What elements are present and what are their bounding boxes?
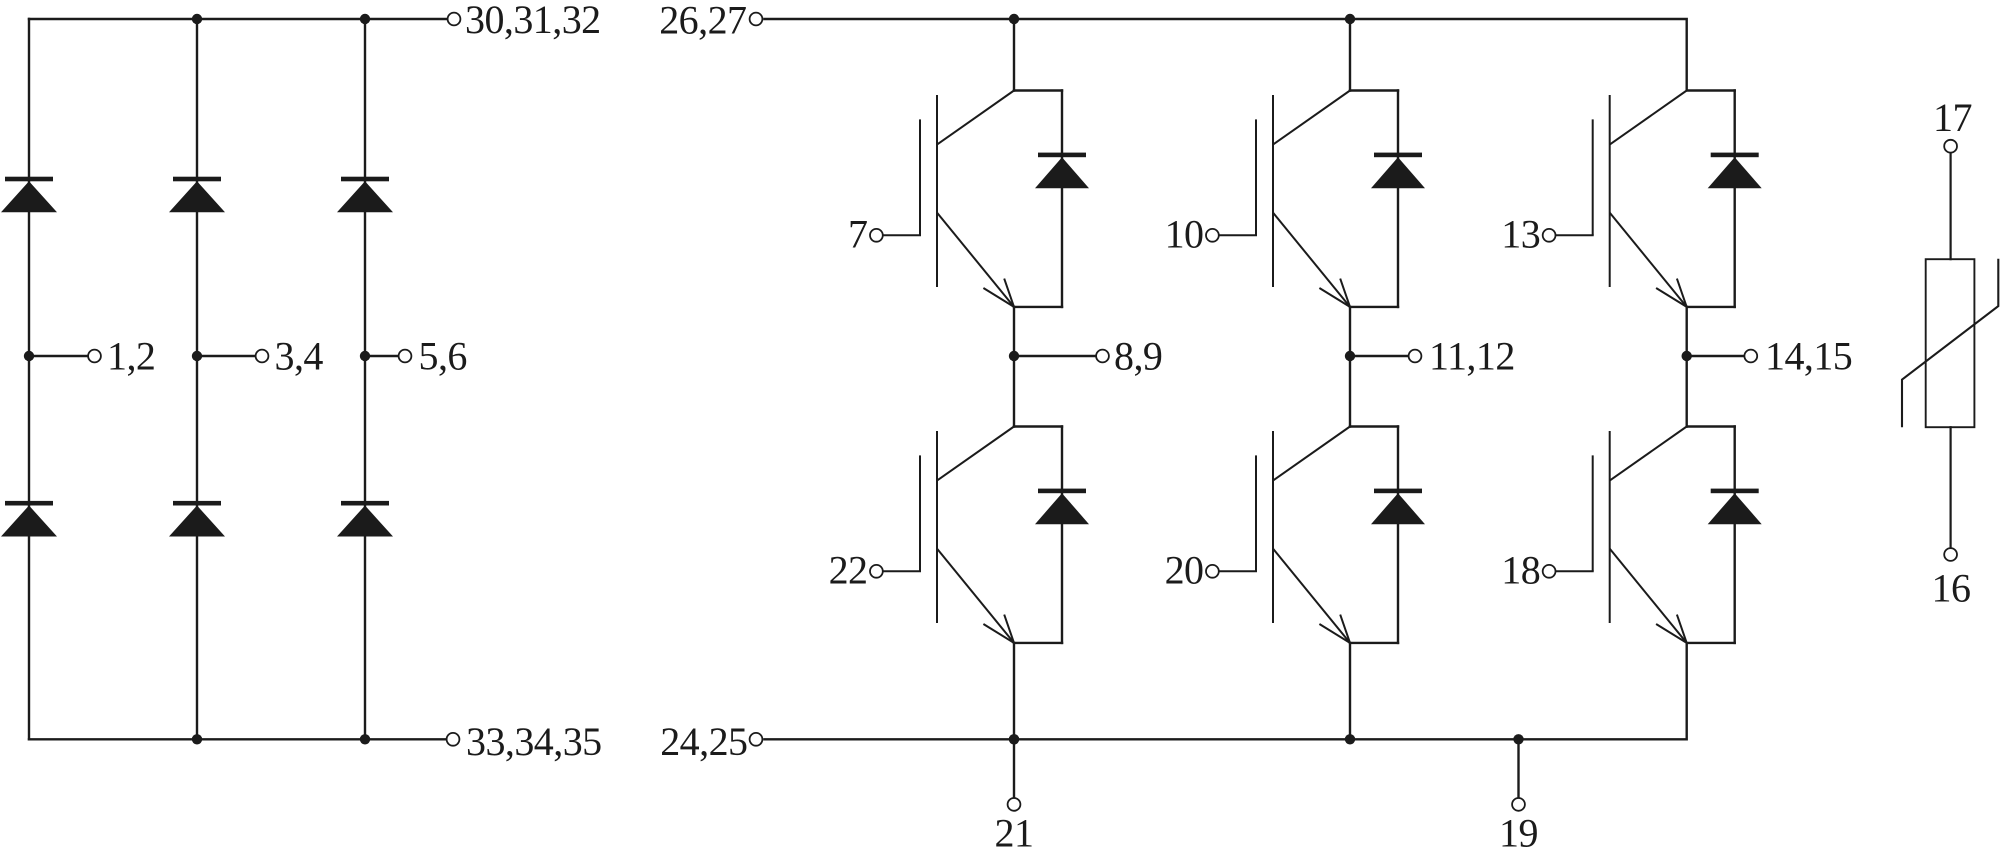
diode D5 (rectifier bottom, leg 2): [169, 501, 225, 537]
terminal 8,9: [1096, 350, 1109, 363]
transistor Q4 (bottom, pin 22) emitter arrow barb 2: [1004, 615, 1014, 643]
wire phase 1 midpoint drop: [1013, 307, 1015, 356]
svg-text:8,9: 8,9: [1114, 333, 1162, 378]
wire gate lead Q2 (top, pin 10): [1220, 234, 1257, 236]
transistor Q3 (top, pin 13) emitter arrow barb 1: [1656, 288, 1687, 307]
transistor Q4 (bottom, pin 22) collector lead: [937, 427, 1014, 481]
wire collector elbow Q2 (top, pin 10): [1350, 89, 1398, 91]
wire AC input stub 1,2: [29, 355, 87, 357]
transistor Q6 (bottom, pin 18) emitter arrow barb 1: [1656, 624, 1687, 643]
wire emitter elbow Q4 (bottom, pin 22): [1014, 642, 1062, 644]
transistor Q2 (top, pin 10) collector lead: [1273, 91, 1350, 145]
label 20: [1165, 548, 1204, 593]
diode D6 (rectifier bottom, leg 3): [337, 501, 393, 537]
svg-text:18: 18: [1501, 548, 1540, 593]
wire DC+ rail (inverter top bus): [763, 19, 1686, 91]
svg-text:1,2: 1,2: [107, 333, 155, 378]
wire gate lead Q5 (bottom, pin 20): [1220, 570, 1257, 572]
wire DC- rail (rectifier bottom bus): [29, 738, 446, 740]
junction node 5,6: [360, 351, 370, 361]
transistor Q2 (top, pin 10) emitter arrow barb 2: [1340, 279, 1350, 307]
wire emitter elbow Q1 (top, pin 7): [1014, 306, 1062, 308]
wire stub terminal 21: [1013, 739, 1015, 797]
transistor Q5 (bottom, pin 20) collector lead: [1273, 427, 1350, 481]
transistor Q4 (bottom, pin 22) gate bar: [919, 455, 921, 571]
svg-text:24,25: 24,25: [660, 719, 747, 764]
wire phase 3 midpoint drop: [1685, 307, 1687, 356]
label 17: [1933, 95, 1972, 140]
transistor Q5 (bottom, pin 20) gate bar: [1255, 455, 1257, 571]
wire emitter elbow Q5 (bottom, pin 20): [1350, 642, 1398, 644]
transistor Q1 (top, pin 7) emitter arrow barb 1: [983, 288, 1014, 307]
transistor Q3 (top, pin 13) main bar: [1609, 95, 1611, 287]
junction top rail / leg 3: [360, 14, 370, 24]
svg-text:17: 17: [1933, 95, 1972, 140]
terminal 10 (gate Q2 (top, pin 10)): [1206, 229, 1219, 242]
transistor Q5 (bottom, pin 20) emitter arrow barb 2: [1340, 615, 1350, 643]
transistor Q6 (bottom, pin 18) emitter arrow barb 2: [1677, 615, 1687, 643]
svg-text:11,12: 11,12: [1429, 333, 1515, 378]
terminal 20 (gate Q5 (bottom, pin 20)): [1206, 565, 1219, 578]
junction bottom rail phase 2: [1345, 734, 1355, 744]
diode D6 bottom FWD (freewheel, antiparallel): [1708, 489, 1762, 525]
junction bottom rail / leg 3: [360, 734, 370, 744]
label 21: [995, 811, 1034, 856]
transistor Q6 (bottom, pin 18) gate bar: [1592, 455, 1594, 571]
diode D1 top FWD (freewheel, antiparallel): [1035, 153, 1089, 189]
svg-text:14,15: 14,15: [1765, 333, 1852, 378]
junction bottom rail / leg 2: [192, 734, 202, 744]
wire AC input stub 3,4: [197, 355, 255, 357]
wire AC input stub 5,6: [365, 355, 398, 357]
svg-text:5,6: 5,6: [419, 333, 467, 378]
wire freewheel-diode branch Q5 (bottom, pin 20): [1397, 427, 1399, 643]
wire collector elbow Q3 (top, pin 13): [1687, 89, 1735, 91]
terminal 19: [1512, 798, 1525, 811]
label 8,9: [1114, 333, 1162, 378]
wire emitter elbow Q6 (bottom, pin 18): [1687, 642, 1735, 644]
junction node 3,4: [192, 351, 202, 361]
wire gate lead Q3 (top, pin 13): [1556, 234, 1593, 236]
terminal 11,12: [1409, 350, 1422, 363]
junction node 11,12: [1345, 351, 1355, 361]
label 30,31,32: [465, 0, 601, 42]
transistor Q2 (top, pin 10) emitter arrow barb 1: [1319, 288, 1350, 307]
label 11,12: [1429, 333, 1515, 378]
wire rectifier leg 1 vertical: [28, 19, 30, 739]
junction node 21: [1009, 734, 1019, 744]
svg-text:13: 13: [1501, 212, 1540, 257]
junction top rail / leg 2: [192, 14, 202, 24]
transistor Q4 (bottom, pin 22) emitter lead: [937, 549, 1014, 643]
terminal 7 (gate Q1 (top, pin 7)): [870, 229, 883, 242]
label 7: [848, 212, 867, 257]
transistor Q2 (top, pin 10) main bar: [1272, 95, 1274, 287]
terminal 30,31,32: [448, 13, 461, 26]
diode D4 (rectifier bottom, leg 1): [1, 501, 57, 537]
diode D3 top FWD (freewheel, antiparallel): [1708, 153, 1762, 189]
label 26,27: [659, 0, 746, 43]
transistor Q4 (bottom, pin 22) emitter arrow barb 1: [983, 624, 1014, 643]
label 1,2: [107, 333, 155, 378]
label 22: [829, 548, 868, 593]
wire collector drop phase 1: [1013, 19, 1015, 91]
wire AC output stub 8,9: [1014, 355, 1095, 357]
transistor Q2 (top, pin 10) emitter lead: [1273, 213, 1350, 307]
label 19: [1499, 811, 1538, 856]
transistor Q3 (top, pin 13) emitter lead: [1610, 213, 1687, 307]
transistor Q6 (bottom, pin 18) emitter lead: [1610, 549, 1687, 643]
label 24,25: [660, 719, 747, 764]
wire freewheel-diode branch Q6 (bottom, pin 18): [1733, 427, 1735, 643]
junction node 8,9: [1009, 351, 1019, 361]
transistor Q6 (bottom, pin 18) main bar: [1609, 431, 1611, 623]
wire collector drop phase 1 bottom: [1013, 356, 1015, 427]
transistor Q6 (bottom, pin 18) collector lead: [1610, 427, 1687, 481]
label 33,34,35: [466, 719, 602, 764]
label 13: [1501, 212, 1540, 257]
transistor Q1 (top, pin 7) emitter arrow barb 2: [1004, 279, 1014, 307]
wire AC output stub 11,12: [1350, 355, 1408, 357]
junction node 14,15: [1682, 351, 1692, 361]
terminal 14,15: [1744, 350, 1757, 363]
wire collector elbow Q5 (bottom, pin 20): [1350, 425, 1398, 427]
svg-text:16: 16: [1932, 566, 1971, 611]
label 18: [1501, 548, 1540, 593]
svg-text:33,34,35: 33,34,35: [466, 719, 602, 764]
transistor Q1 (top, pin 7) collector lead: [937, 91, 1014, 145]
label 14,15: [1765, 333, 1852, 378]
terminal 17: [1944, 140, 1957, 153]
wire stub terminal 19: [1517, 739, 1519, 797]
terminal 21: [1008, 798, 1021, 811]
svg-text:19: 19: [1499, 811, 1538, 856]
junction node 1,2: [24, 351, 34, 361]
diode D2 top FWD (freewheel, antiparallel): [1371, 153, 1425, 189]
terminal 5,6: [399, 350, 412, 363]
wire DC- rail (inverter bottom bus): [763, 643, 1686, 739]
transistor Q5 (bottom, pin 20) emitter lead: [1273, 549, 1350, 643]
wire rectifier leg 3 vertical: [364, 19, 366, 739]
diode D1 (rectifier top, leg 1): [1, 177, 57, 213]
wire emitter elbow Q2 (top, pin 10): [1350, 306, 1398, 308]
wire gate lead Q4 (bottom, pin 22): [884, 570, 921, 572]
terminal 18 (gate Q6 (bottom, pin 18)): [1543, 565, 1556, 578]
diode D5 bottom FWD (freewheel, antiparallel): [1371, 489, 1425, 525]
svg-text:30,31,32: 30,31,32: [465, 0, 601, 42]
thermistor R1 characteristic stroke: [1902, 259, 1998, 428]
svg-text:20: 20: [1165, 548, 1204, 593]
wire collector drop phase 2: [1349, 19, 1351, 91]
transistor Q1 (top, pin 7) main bar: [936, 95, 938, 287]
wire collector elbow Q4 (bottom, pin 22): [1014, 425, 1062, 427]
wire collector elbow Q6 (bottom, pin 18): [1687, 425, 1735, 427]
terminal 3,4: [256, 350, 269, 363]
wire collector drop phase 2 bottom: [1349, 356, 1351, 427]
terminal 26,27: [750, 13, 763, 26]
label 16: [1932, 566, 1971, 611]
label 3,4: [275, 333, 324, 378]
diode D2 (rectifier top, leg 2): [169, 177, 225, 213]
svg-text:10: 10: [1165, 212, 1204, 257]
wire freewheel-diode branch Q4 (bottom, pin 22): [1061, 427, 1063, 643]
thermistor R1 (NTC) body: [1926, 259, 1975, 427]
junction top rail phase 1: [1009, 14, 1019, 24]
transistor Q1 (top, pin 7) gate bar: [919, 119, 921, 235]
svg-text:26,27: 26,27: [659, 0, 746, 43]
wire NTC bottom lead: [1949, 427, 1951, 547]
transistor Q4 (bottom, pin 22) main bar: [936, 431, 938, 623]
terminal 16: [1944, 548, 1957, 561]
diode D3 (rectifier top, leg 3): [337, 177, 393, 213]
label 5,6: [419, 333, 467, 378]
wire emitter elbow Q3 (top, pin 13): [1687, 306, 1735, 308]
wire AC output stub 14,15: [1687, 355, 1744, 357]
terminal 1,2: [88, 350, 101, 363]
wire phase 2 midpoint drop: [1349, 307, 1351, 356]
junction node 19: [1513, 734, 1523, 744]
wire emitter tail phase 1: [1013, 643, 1015, 739]
wire collector elbow Q1 (top, pin 7): [1014, 89, 1062, 91]
junction top rail phase 2: [1345, 14, 1355, 24]
wire gate lead Q1 (top, pin 7): [884, 234, 921, 236]
transistor Q3 (top, pin 13) emitter arrow barb 2: [1677, 279, 1687, 307]
wire freewheel-diode branch Q3 (top, pin 13): [1733, 91, 1735, 307]
diode D4 bottom FWD (freewheel, antiparallel): [1035, 489, 1089, 525]
wire gate lead Q6 (bottom, pin 18): [1556, 570, 1593, 572]
transistor Q3 (top, pin 13) gate bar: [1592, 119, 1594, 235]
label 10: [1165, 212, 1204, 257]
terminal 33,34,35: [447, 733, 460, 746]
wire rectifier leg 2 vertical: [196, 19, 198, 739]
wire emitter tail phase 2: [1349, 643, 1351, 739]
svg-text:21: 21: [995, 811, 1034, 856]
wire freewheel-diode branch Q2 (top, pin 10): [1397, 91, 1399, 307]
terminal 13 (gate Q3 (top, pin 13)): [1543, 229, 1556, 242]
terminal 22 (gate Q4 (bottom, pin 22)): [870, 565, 883, 578]
transistor Q3 (top, pin 13) collector lead: [1610, 91, 1687, 145]
transistor Q2 (top, pin 10) gate bar: [1255, 119, 1257, 235]
wire DC+ rail (rectifier top bus): [29, 18, 447, 20]
wire freewheel-diode branch Q1 (top, pin 7): [1061, 91, 1063, 307]
transistor Q1 (top, pin 7) emitter lead: [937, 213, 1014, 307]
terminal 24,25: [750, 733, 763, 746]
wire NTC top lead: [1949, 153, 1951, 259]
transistor Q5 (bottom, pin 20) main bar: [1272, 431, 1274, 623]
wire collector drop phase 3 bottom: [1685, 356, 1687, 427]
transistor Q5 (bottom, pin 20) emitter arrow barb 1: [1319, 624, 1350, 643]
svg-text:3,4: 3,4: [275, 333, 324, 378]
svg-text:22: 22: [829, 548, 868, 593]
junction bottom rail phase 1: [1009, 734, 1019, 744]
svg-text:7: 7: [848, 212, 867, 257]
